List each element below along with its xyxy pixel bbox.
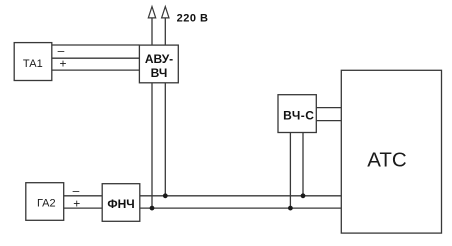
block ATS <box>341 70 441 233</box>
wire AVU-VCh down-right to upper bus <box>164 83 166 196</box>
wire VCh-S down-left to lower bus <box>289 133 291 209</box>
arrow head left 220V <box>148 7 155 18</box>
junction dot VCh-S left on lower bus <box>288 206 293 211</box>
block AVU-VCh <box>139 45 178 83</box>
junction dot AVU left on lower bus <box>150 206 155 211</box>
wire VCh-S down-right to upper bus <box>302 133 304 196</box>
svg-text:ТА1: ТА1 <box>23 58 43 70</box>
wire 220V feed left vertical <box>151 18 153 45</box>
wire pair TA1 to AVU-VCh line 1 <box>52 44 140 46</box>
junction dot AVU right on upper bus <box>163 193 168 198</box>
block FNCh <box>102 184 140 222</box>
block VCh-S <box>278 95 316 133</box>
wire lower bus FNCh to ATS <box>140 207 341 209</box>
arrow head right 220V <box>162 7 169 18</box>
wire 220V feed right vertical <box>164 18 166 45</box>
wire TA1 to AVU-VCh line 3 (plus) <box>52 69 140 71</box>
svg-text:–: – <box>73 183 80 197</box>
svg-text:АВУ-: АВУ- <box>145 52 173 66</box>
svg-text:ВЧ: ВЧ <box>151 66 168 80</box>
svg-text:+: + <box>73 196 80 210</box>
wire VCh-S to ATS lower <box>316 120 341 122</box>
block TA1 <box>14 43 52 81</box>
svg-text:ВЧ-С: ВЧ-С <box>283 108 314 122</box>
wire AVU-VCh down-left to lower bus <box>151 83 153 208</box>
wire VCh-S to ATS upper <box>316 107 341 109</box>
svg-text:ФНЧ: ФНЧ <box>107 197 134 211</box>
wire GA2 to FNCh upper (minus) <box>64 195 102 197</box>
svg-text:+: + <box>59 57 66 71</box>
wire TA1 to AVU-VCh line 2 (minus) <box>52 57 140 59</box>
wire GA2 to FNCh lower (plus) <box>64 207 102 209</box>
wire upper bus FNCh to ATS <box>140 195 341 197</box>
junction dot VCh-S right on upper bus <box>301 193 306 198</box>
svg-text:220 В: 220 В <box>177 13 209 25</box>
svg-text:–: – <box>58 43 65 57</box>
svg-text:ГА2: ГА2 <box>37 197 56 209</box>
svg-text:АТС: АТС <box>367 148 407 171</box>
block GA2 <box>26 183 64 221</box>
